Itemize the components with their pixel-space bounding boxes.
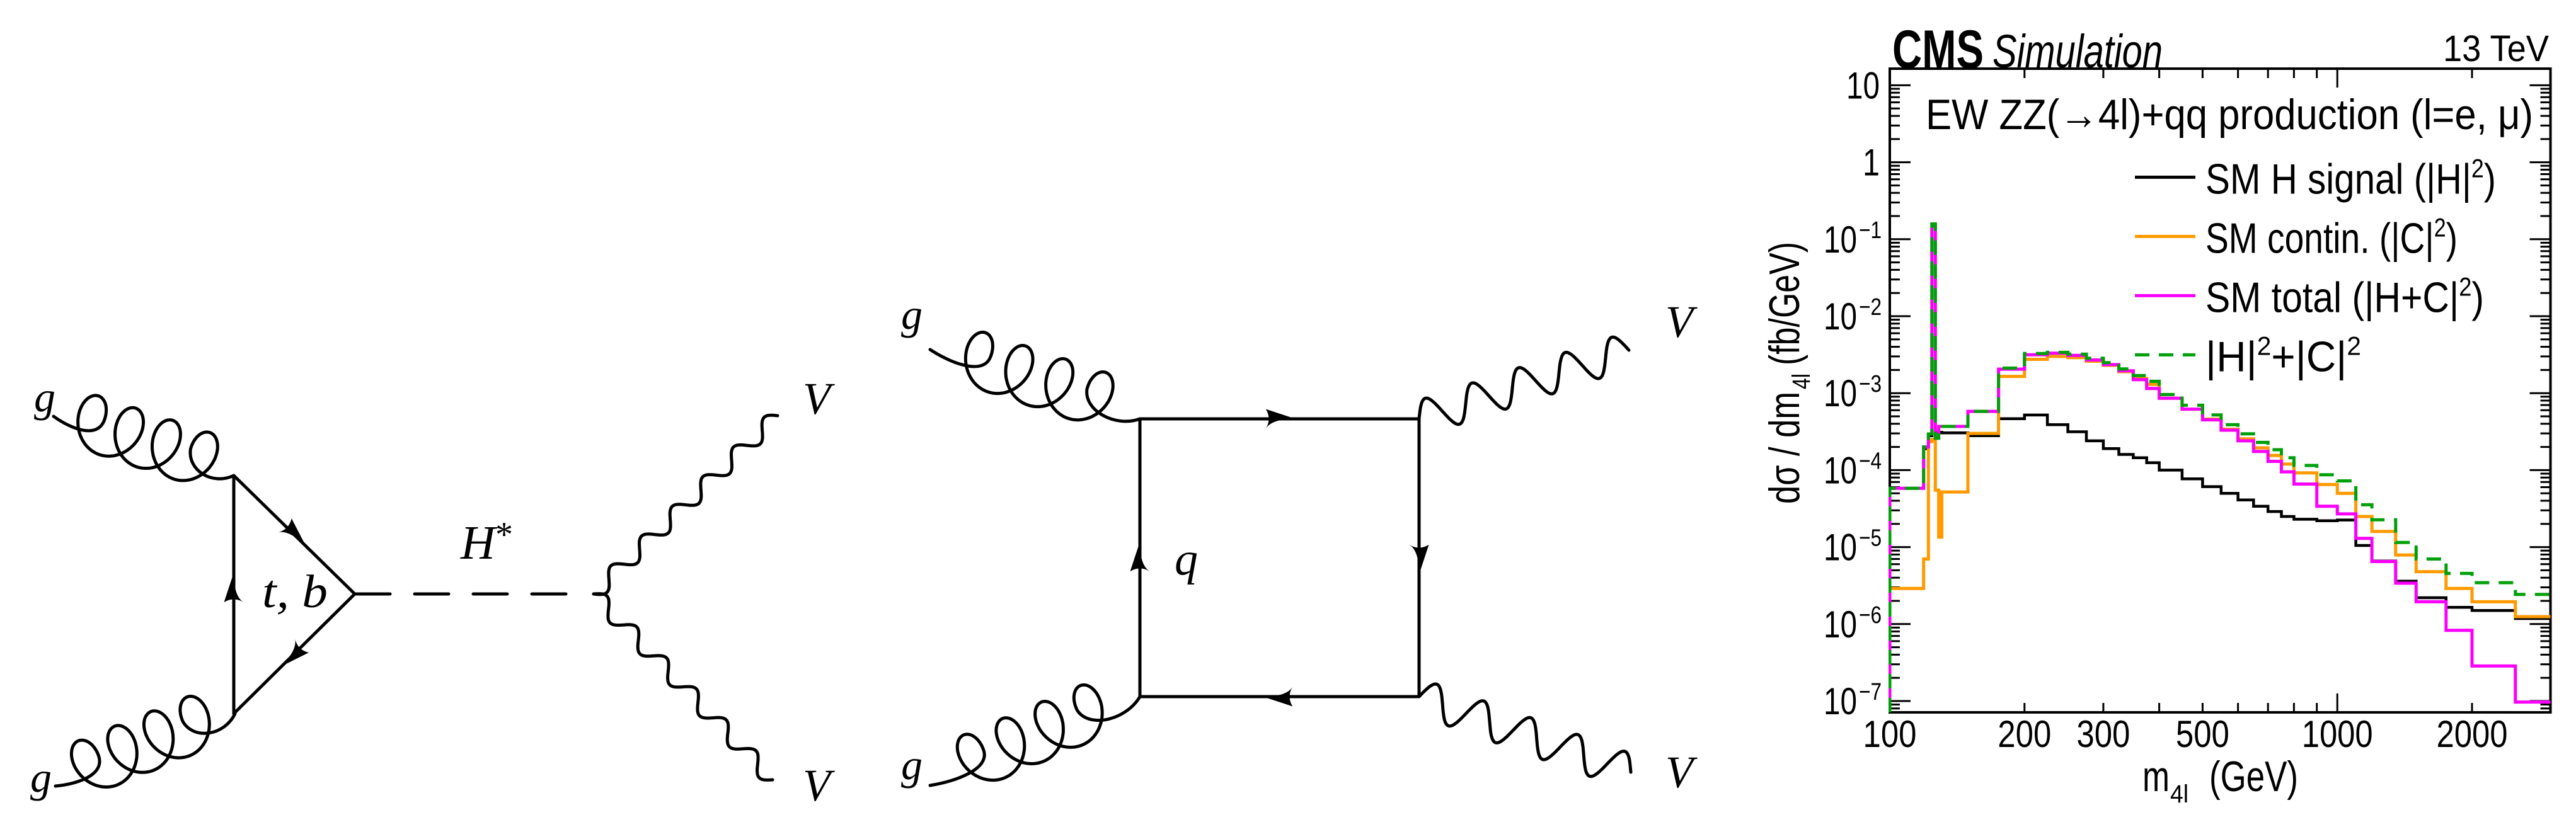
svg-text:100: 100 <box>1863 713 1917 755</box>
svg-text:dσ / dm: dσ / dm <box>1761 392 1808 504</box>
svg-text:10: 10 <box>1824 527 1857 569</box>
svg-text:V: V <box>803 760 835 811</box>
svg-text:(fb/GeV): (fb/GeV) <box>1761 242 1808 365</box>
svg-text:2: 2 <box>2347 331 2361 360</box>
svg-text:CMS: CMS <box>1892 20 1984 80</box>
svg-text:500: 500 <box>2176 713 2229 755</box>
svg-text:10: 10 <box>1824 295 1857 338</box>
svg-text:EW ZZ(→4l)+qq production (l=e,: EW ZZ(→4l)+qq production (l=e, μ) <box>1926 91 2533 139</box>
svg-text:2: 2 <box>2434 212 2446 242</box>
svg-text:10: 10 <box>1824 680 1857 722</box>
svg-text:−4: −4 <box>1859 448 1882 474</box>
svg-text:10: 10 <box>1824 449 1857 491</box>
svg-text:2: 2 <box>2459 271 2471 301</box>
svg-text:V: V <box>1665 297 1698 347</box>
svg-text:|H|: |H| <box>2205 333 2257 380</box>
svg-text:(GeV): (GeV) <box>2209 753 2298 801</box>
svg-text:V: V <box>803 374 835 424</box>
svg-text:g: g <box>901 741 923 789</box>
svg-text:−1: −1 <box>1859 217 1882 244</box>
svg-text:+|C|: +|C| <box>2271 333 2347 380</box>
svg-text:300: 300 <box>2076 713 2130 755</box>
svg-text:−7: −7 <box>1859 679 1882 705</box>
svg-text:2000: 2000 <box>2437 713 2508 755</box>
svg-text:): ) <box>2446 214 2458 262</box>
svg-text:4l: 4l <box>1788 374 1815 389</box>
svg-text:2: 2 <box>2471 153 2484 183</box>
svg-text:m: m <box>2142 753 2170 801</box>
svg-text:−3: −3 <box>1859 371 1882 397</box>
svg-text:|C|: |C| <box>2391 214 2434 262</box>
svg-text:10: 10 <box>1824 372 1857 414</box>
svg-text:g: g <box>901 290 923 338</box>
svg-text:q: q <box>1175 533 1198 585</box>
svg-text:): ) <box>2484 155 2496 203</box>
svg-text:): ) <box>2471 273 2484 321</box>
svg-text:SM H signal (: SM H signal ( <box>2205 155 2426 203</box>
svg-text:−5: −5 <box>1859 525 1882 552</box>
svg-text:V: V <box>1665 747 1698 797</box>
svg-text:200: 200 <box>1998 713 2051 755</box>
svg-text:4l: 4l <box>2170 780 2188 808</box>
svg-text:|H|: |H| <box>2426 155 2471 203</box>
svg-text:−2: −2 <box>1859 294 1882 321</box>
svg-text:t, b: t, b <box>262 566 328 618</box>
svg-text:g: g <box>30 753 52 801</box>
svg-text:2: 2 <box>2257 331 2272 360</box>
svg-text:Simulation: Simulation <box>1992 25 2163 77</box>
svg-text:13 TeV: 13 TeV <box>2443 28 2549 69</box>
svg-text:1: 1 <box>1863 142 1880 184</box>
svg-text:−6: −6 <box>1859 602 1882 629</box>
svg-text:SM contin. (: SM contin. ( <box>2205 214 2391 262</box>
svg-text:SM total (: SM total ( <box>2205 273 2364 321</box>
svg-text:g: g <box>34 373 55 421</box>
svg-text:10: 10 <box>1846 64 1880 106</box>
svg-text:10: 10 <box>1824 219 1857 261</box>
svg-text:*: * <box>495 515 513 554</box>
svg-text:10: 10 <box>1824 603 1857 646</box>
svg-text:|H+C|: |H+C| <box>2364 273 2459 321</box>
svg-text:1000: 1000 <box>2302 713 2373 755</box>
svg-text:H: H <box>460 516 498 569</box>
